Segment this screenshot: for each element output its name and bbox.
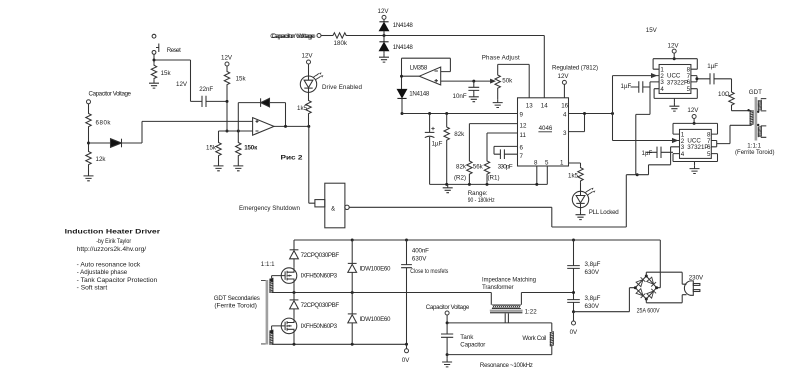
- wire gate2: [272, 326, 282, 330]
- svg-text:12V: 12V: [378, 8, 390, 15]
- svg-text:Transformer: Transformer: [482, 284, 514, 291]
- svg-text:15k: 15k: [236, 76, 247, 83]
- wire bridge AC to plug: [646, 272, 686, 284]
- wire supply ring upper (VCC pins 1,8): [653, 59, 697, 69]
- resistor 10R: [729, 91, 734, 107]
- wire 22nF to junction: [206, 100, 227, 102]
- wire pin9 rail: [402, 113, 518, 115]
- node 0V (left): [406, 344, 408, 349]
- svg-text:13: 13: [526, 103, 533, 110]
- svg-text:6: 6: [520, 144, 524, 151]
- svg-text:56k: 56k: [473, 163, 484, 170]
- wire pin11 to R1: [487, 133, 518, 160]
- svg-text:12: 12: [520, 122, 527, 129]
- svg-text:14: 14: [541, 103, 548, 110]
- svg-text:7: 7: [520, 153, 524, 160]
- wire: [88, 104, 90, 112]
- capacitor 330pF (pins 6-7): [494, 146, 518, 154]
- svg-text:Work Coil: Work Coil: [522, 335, 546, 342]
- LED Drive Enabled: [300, 73, 323, 93]
- resistor 680k: [86, 112, 91, 128]
- svg-text:3,8µF: 3,8µF: [585, 295, 601, 302]
- svg-text:0V: 0V: [402, 357, 410, 364]
- svg-text:Drive Enabled: Drive Enabled: [322, 84, 363, 91]
- wire: [88, 128, 90, 150]
- svg-text:Emergency Shutdown: Emergency Shutdown: [239, 205, 301, 212]
- wire op-amp output: [274, 125, 309, 127]
- arrowhead upper input: [652, 74, 657, 78]
- svg-text:4046: 4046: [539, 125, 553, 132]
- svg-text:9: 9: [520, 112, 524, 119]
- ground: [690, 165, 700, 173]
- capacitor 1uF (upper decoupling): [631, 86, 651, 88]
- svg-text:- Auto resonance lock: - Auto resonance lock: [77, 261, 141, 268]
- svg-text:0V: 0V: [570, 329, 578, 336]
- ground: [493, 99, 503, 107]
- svg-text:630V: 630V: [585, 269, 600, 276]
- gate emergency NAND: [315, 183, 349, 228]
- svg-text:4: 4: [660, 86, 664, 93]
- svg-text:150к: 150к: [244, 144, 258, 151]
- polarity dots: [747, 109, 749, 111]
- svg-text:IXFH50N60P3: IXFH50N60P3: [301, 273, 338, 280]
- svg-text:- Adjustable phase: - Adjustable phase: [77, 269, 128, 276]
- wire: [308, 92, 310, 99]
- ground: [443, 184, 453, 192]
- svg-text:-by Eirik Taylor: -by Eirik Taylor: [96, 238, 131, 245]
- svg-text:630V: 630V: [585, 303, 600, 310]
- svg-text:22nF: 22nF: [199, 86, 213, 93]
- svg-text:GDT: GDT: [749, 89, 762, 96]
- svg-text:180k: 180k: [334, 40, 348, 47]
- svg-text:82k: 82k: [454, 131, 465, 138]
- diode 1N4148 (clamp bottom): [379, 42, 388, 51]
- svg-text:(Ferrite Toroid): (Ferrite Toroid): [214, 302, 257, 309]
- resistor 82k (R2): [467, 160, 472, 176]
- wire pot top to pin13: [498, 64, 530, 97]
- wire supply ring lower (pins 1,8): [673, 123, 718, 134]
- svg-text:PLL Locked: PLL Locked: [589, 209, 620, 216]
- SECTION: top-left comparator: [84, 34, 363, 203]
- arrowhead lower input: [673, 139, 678, 143]
- wire gate1: [272, 276, 282, 279]
- svg-text:5: 5: [545, 160, 549, 167]
- svg-text:680k: 680k: [96, 120, 112, 127]
- arrowhead into pot: [490, 79, 495, 82]
- capacitor 22nF: [202, 96, 206, 107]
- svg-text:12V: 12V: [221, 55, 233, 62]
- svg-text:90 - 180kHz: 90 - 180kHz: [468, 197, 495, 204]
- svg-text:Capacitor Voltage: Capacitor Voltage: [426, 304, 470, 311]
- svg-text:1N4148: 1N4148: [409, 90, 430, 97]
- resistor 82k (loop filter): [446, 114, 448, 126]
- svg-text:12k: 12k: [96, 156, 107, 163]
- svg-text:1µF: 1µF: [432, 141, 443, 148]
- svg-text:5: 5: [707, 151, 711, 158]
- wire GDT secondary stubs: [761, 99, 767, 138]
- ground: [669, 103, 679, 111]
- wire B+ rail: [294, 239, 660, 241]
- transistor Q2 IXFH50N60P3: [281, 318, 297, 334]
- svg-text:Close to mosfets: Close to mosfets: [410, 268, 448, 275]
- LED PLL Locked: [572, 188, 595, 208]
- wire pin1 to 1k5: [569, 163, 581, 166]
- svg-text:Capacitor Voltage: Capacitor Voltage: [89, 90, 132, 97]
- svg-text:330pF: 330pF: [498, 163, 513, 170]
- capacitor 10nF: [473, 81, 475, 87]
- svg-text:- Tank Capacitor Protection: - Tank Capacitor Protection: [77, 277, 158, 284]
- ground rail: [430, 183, 548, 185]
- svg-text:230V: 230V: [689, 274, 704, 281]
- resistor 15k (reset pulldown): [151, 64, 156, 80]
- resistor 15k (to 12V): [224, 70, 229, 86]
- svg-text:1k5: 1k5: [568, 172, 579, 179]
- diode IDW100E60 (top): [351, 240, 353, 263]
- wire minus input rail: [219, 130, 253, 132]
- svg-text:IDW100E60: IDW100E60: [360, 266, 392, 273]
- wire +input to pot: [441, 80, 490, 82]
- svg-text:(R1): (R1): [488, 174, 500, 181]
- SECTION: top-middle LM358 and 4046: [239, 8, 680, 228]
- svg-text:8: 8: [534, 160, 538, 167]
- wire tank bottom rail: [447, 354, 552, 356]
- wire 15k to minus rail: [226, 86, 228, 131]
- node 0V (right): [573, 312, 575, 321]
- svg-text:1µF: 1µF: [621, 83, 632, 90]
- svg-text:Resonance ~100kHz: Resonance ~100kHz: [480, 362, 533, 369]
- svg-text:16: 16: [561, 103, 568, 110]
- svg-text:Рис 2: Рис 2: [281, 155, 304, 162]
- svg-text:11: 11: [520, 132, 527, 139]
- transformer GDT secondaries: [261, 278, 273, 344]
- svg-text:25A 600V: 25A 600V: [637, 307, 661, 314]
- svg-text:Regulated (7812): Regulated (7812): [552, 64, 598, 71]
- wire B+ to bridge: [657, 240, 661, 288]
- svg-text:1: 1: [560, 160, 564, 167]
- IC U2 UCC 37322P: [659, 65, 691, 94]
- svg-text:GDT Secondaries: GDT Secondaries: [214, 295, 260, 302]
- wire: [88, 166, 90, 173]
- resistor 56k (R1): [484, 160, 489, 176]
- wire: [226, 66, 228, 70]
- junction: [226, 100, 229, 103]
- svg-text:(Ferrite Toroid): (Ferrite Toroid): [735, 149, 775, 156]
- svg-text:15V: 15V: [646, 27, 658, 34]
- svg-text:72CPQ030PBF: 72CPQ030PBF: [301, 302, 340, 309]
- svg-text:Range:: Range:: [468, 190, 488, 197]
- diode 1N4148 (clamp top): [379, 22, 388, 31]
- svg-text:12V: 12V: [558, 73, 570, 80]
- IC 4046: [518, 98, 569, 166]
- capacitor 3.8uF (bottom): [567, 300, 580, 303]
- ground: [84, 173, 94, 181]
- svg-text:400nF: 400nF: [412, 248, 429, 255]
- resistor 150k (hysteresis): [237, 130, 240, 133]
- svg-text:LM358: LM358: [410, 64, 428, 71]
- wire enable branch lower driver pin3: [637, 147, 679, 175]
- svg-text:Reset: Reset: [167, 47, 181, 54]
- rectifier bridge 25A 600V: [634, 275, 658, 301]
- capacitor Tank: [446, 323, 448, 334]
- capacitor 1uF electrolytic: [429, 114, 431, 185]
- svg-text:3: 3: [563, 130, 567, 137]
- svg-text:IXFH50N60P3: IXFH50N60P3: [301, 323, 338, 330]
- SECTION: text block: [65, 228, 161, 291]
- op-amp LM358: [419, 67, 440, 85]
- SECTION: right gate drivers and GDT: [621, 27, 775, 174]
- svg-text:37322P: 37322P: [667, 79, 688, 86]
- svg-text:10Ω: 10Ω: [718, 91, 730, 98]
- wire 180k to pin14: [348, 36, 545, 98]
- svg-text:1:1:1: 1:1:1: [261, 261, 275, 268]
- svg-text:Capacitor: Capacitor: [460, 342, 485, 349]
- diode IDW100E60 (bottom): [351, 293, 353, 314]
- svg-text:15k: 15k: [161, 70, 172, 77]
- svg-text:1µF: 1µF: [642, 150, 653, 157]
- svg-text:15k: 15k: [206, 144, 217, 151]
- junction: [87, 142, 90, 145]
- op-amp U_cmp: [253, 118, 274, 136]
- wire output pins 7,6 tied (lower): [711, 125, 751, 147]
- ground: [233, 163, 243, 171]
- svg-text:Capacitor Voltage: Capacitor Voltage: [272, 33, 317, 40]
- svg-text:10nF: 10nF: [453, 93, 467, 100]
- op-amp LM358 feedback loop: [402, 58, 451, 89]
- wire tank top rail: [447, 322, 552, 324]
- resistor 1k5: [578, 166, 583, 182]
- wire mid rail: [272, 292, 492, 294]
- svg-text:(R2): (R2): [454, 174, 466, 181]
- wire output pins 7,6 tied: [691, 76, 710, 82]
- resistor 15k (minus divider): [218, 131, 220, 141]
- IC U3 UCC 37321P: [680, 129, 712, 158]
- svg-text:4: 4: [681, 151, 685, 158]
- diode 72CPQ030PBF (top): [293, 240, 295, 250]
- wire to 180k: [321, 35, 332, 37]
- svg-text:Tank: Tank: [460, 334, 474, 341]
- svg-text:Induction Heater Driver: Induction Heater Driver: [65, 228, 161, 235]
- svg-text:12V: 12V: [668, 42, 680, 49]
- svg-text:12V: 12V: [302, 52, 314, 59]
- resistor 180k: [332, 33, 348, 38]
- wire ground ring lower (pins 4,5): [673, 154, 718, 162]
- wire enable branch upper driver pin3: [636, 82, 659, 175]
- wire pins 3,4 tied (VCO out): [569, 114, 613, 132]
- svg-text:1k5: 1k5: [297, 105, 308, 112]
- wire diode to +input: [122, 121, 253, 143]
- capacitor 400nF 630V: [406, 240, 408, 265]
- wire bridge DC- to caps: [574, 288, 636, 312]
- resistor 12k: [86, 150, 91, 166]
- diode (capacitor voltage sense): [89, 142, 111, 144]
- svg-text:630V: 630V: [412, 255, 427, 262]
- svg-text:1µF: 1µF: [707, 63, 718, 70]
- ground: [379, 54, 389, 62]
- wire to output junction and NAND: [309, 115, 315, 203]
- SECTION: bottom power stage: [214, 239, 704, 369]
- svg-text:4: 4: [563, 112, 567, 119]
- capacitor 3.8uF (top): [573, 240, 575, 266]
- resistor 1k5: [306, 99, 311, 115]
- wire bottom rail: [272, 343, 407, 345]
- ground: [442, 359, 452, 367]
- wire pot bottom to ground: [497, 90, 499, 100]
- svg-text:Impedance Matching: Impedance Matching: [482, 276, 537, 283]
- svg-text:IDW100E60: IDW100E60: [360, 316, 392, 323]
- capacitor 1uF (lower decoupling): [646, 151, 673, 153]
- wire signal to both driver inputs: [613, 76, 680, 141]
- svg-text:1:22: 1:22: [525, 308, 538, 315]
- wire 10R to GDT primary: [732, 107, 752, 111]
- capacitor 1uF (series): [710, 73, 714, 84]
- potentiometer 50k: [495, 74, 500, 90]
- svg-text:12V: 12V: [687, 107, 699, 114]
- svg-text:37321P: 37321P: [687, 144, 708, 151]
- wire reset junction to 22nF: [154, 54, 202, 101]
- diode 1N4148 (LM358 out): [397, 89, 406, 98]
- wire cap to 10R: [714, 79, 732, 91]
- svg-text:82k: 82k: [456, 163, 467, 170]
- wire pin12 to R2: [469, 124, 517, 160]
- svg-text:- Soft start: - Soft start: [77, 284, 108, 291]
- ground: [576, 211, 586, 219]
- svg-text:http://uzzors2k.4hv.org/: http://uzzors2k.4hv.org/: [77, 246, 147, 253]
- wire GDT primary bottom: [751, 111, 753, 126]
- wire ground ring upper (pins 4,5): [654, 89, 697, 99]
- wire pin8 pin5 to ground rail: [537, 166, 548, 184]
- svg-text:1N4148: 1N4148: [393, 44, 414, 51]
- ground: [469, 93, 479, 101]
- ground: [149, 80, 159, 88]
- svg-text:Phase Adjust: Phase Adjust: [482, 55, 520, 62]
- wire secondary taps to tank: [505, 313, 508, 323]
- wire NAND output to drivers enable: [349, 175, 637, 227]
- svg-text:12V: 12V: [176, 81, 188, 88]
- feedback diode: [238, 103, 285, 131]
- diode 72CPQ030PBF (bottom): [293, 293, 295, 300]
- transistor Q1 IXFH50N60P3: [281, 268, 297, 284]
- ground: [214, 163, 224, 171]
- svg-text:50k: 50k: [502, 77, 513, 84]
- svg-text:72CPQ030PBF: 72CPQ030PBF: [301, 252, 340, 259]
- wire output to diode: [402, 75, 420, 77]
- svg-text:3,8µF: 3,8µF: [585, 261, 601, 268]
- wire mid rail right: [521, 292, 573, 294]
- svg-text:5: 5: [687, 86, 691, 93]
- switch Reset: [152, 34, 159, 54]
- svg-text:1N4148: 1N4148: [393, 22, 414, 29]
